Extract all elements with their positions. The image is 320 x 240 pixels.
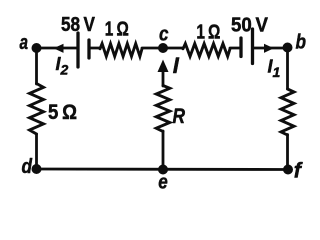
bottom wire d-e-f [37, 168, 289, 171]
wire battery V2 to node b [253, 47, 288, 50]
svg-text:b: b [296, 32, 307, 54]
node a junction [32, 43, 42, 53]
svg-text:I: I [173, 53, 180, 78]
resistor 5 ohm zigzag [30, 84, 44, 135]
node d junction [32, 164, 42, 174]
svg-text:1 Ω: 1 Ω [196, 22, 220, 44]
wire node c to resistor R2 [163, 47, 183, 50]
resistor R zigzag [156, 86, 170, 132]
wire node a to resistor 5 ohm [35, 48, 38, 84]
current arrow I1 (pointing right) [264, 44, 274, 53]
battery V1 58V long plate [76, 33, 79, 67]
wire node b to resistor (right branch) [286, 48, 289, 90]
node b junction [283, 43, 293, 53]
wire arrow I to resistor R [162, 68, 165, 86]
svg-text:50 V: 50 V [231, 14, 269, 36]
wire resistor R2 to battery V2 [230, 47, 241, 50]
node f junction [283, 165, 293, 175]
wire battery V1 to resistor R1 [89, 47, 100, 50]
battery V2 50V short plate [239, 38, 242, 57]
node e junction [158, 165, 168, 175]
current arrow I (pointing up at node c) [158, 60, 169, 73]
resistor R2 1 ohm zigzag [183, 44, 230, 57]
battery V1 58V short plate [87, 40, 90, 58]
wire resistor R1 to node c [142, 47, 163, 50]
wire resistor R to node e [162, 131, 165, 169]
svg-text:R: R [173, 104, 186, 128]
svg-text:a: a [20, 32, 29, 54]
wire resistor 5 ohm to node d [35, 134, 38, 169]
svg-text:e: e [158, 172, 168, 191]
svg-text:5 Ω: 5 Ω [48, 101, 77, 124]
svg-text:1 Ω: 1 Ω [105, 19, 129, 41]
svg-text:c: c [159, 24, 169, 46]
resistor R1 1 ohm zigzag [100, 44, 142, 57]
wire node a to battery V1 [37, 47, 79, 50]
battery V2 50V long plate [251, 29, 254, 64]
svg-text:d: d [22, 156, 33, 178]
svg-text:58 V: 58 V [61, 14, 96, 36]
current arrow I2 (pointing left) [54, 44, 64, 53]
node c junction [158, 43, 168, 53]
wire resistor right branch to node f [286, 135, 289, 170]
resistor right branch zigzag [281, 89, 294, 135]
